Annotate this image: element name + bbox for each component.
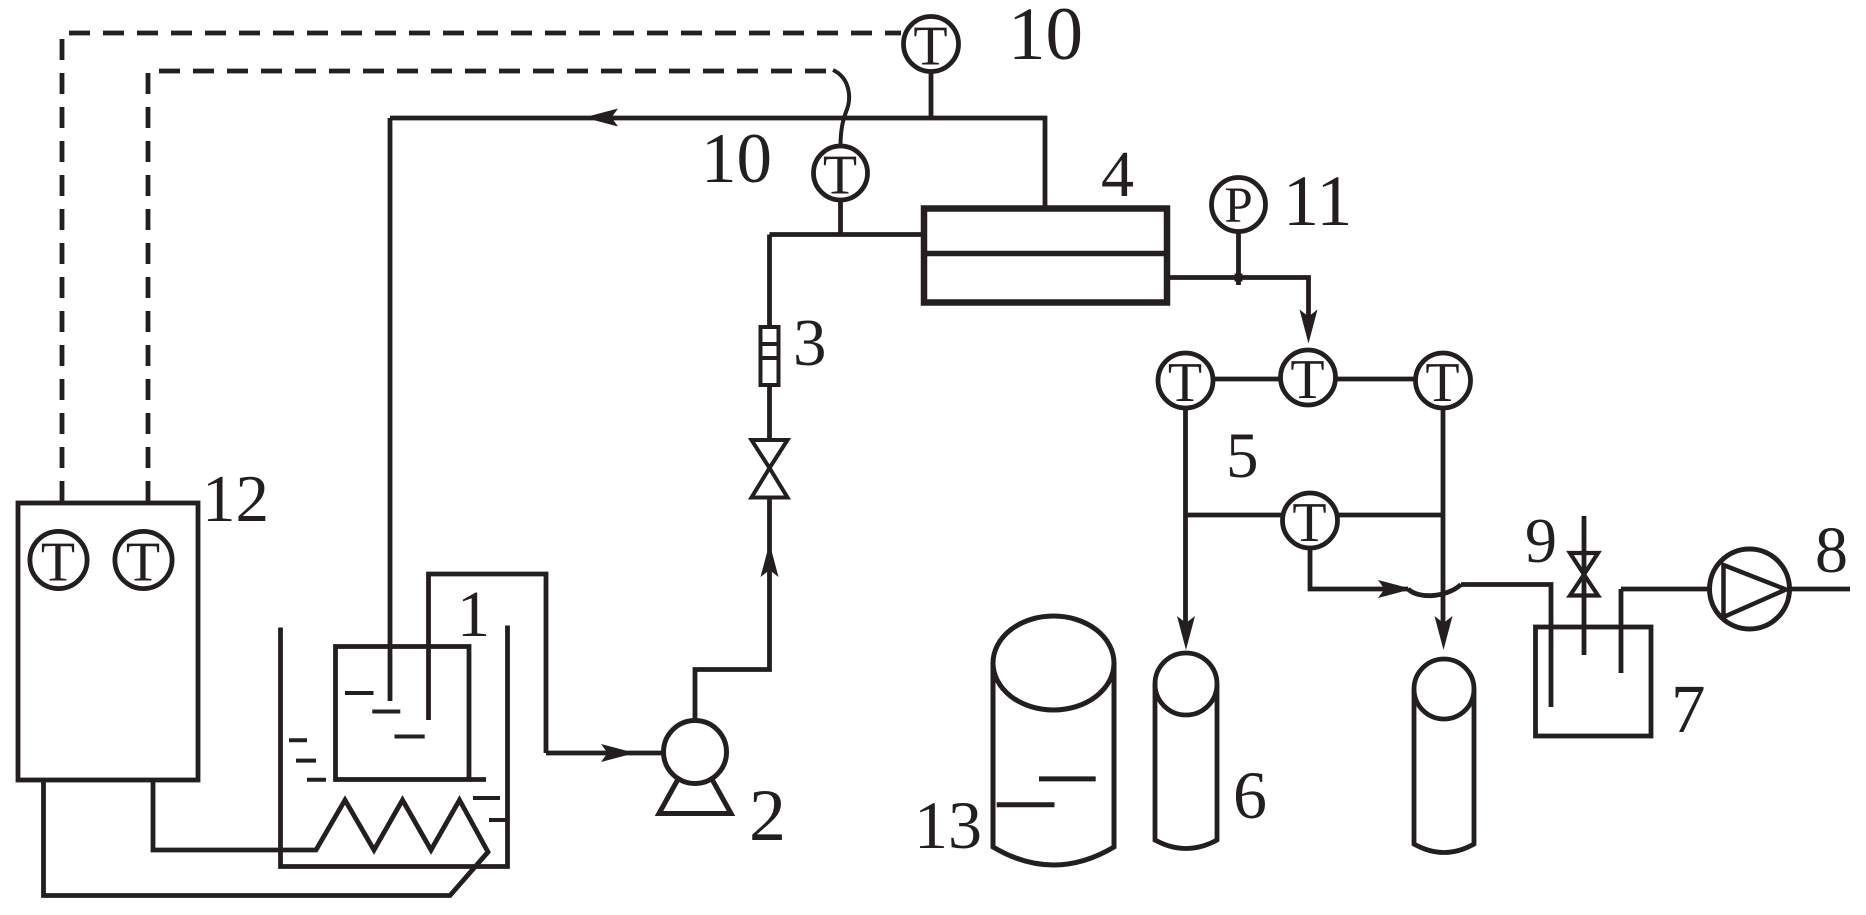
svg-text:5: 5 — [1226, 420, 1259, 492]
svg-text:13: 13 — [914, 787, 982, 863]
svg-text:11: 11 — [1283, 161, 1352, 241]
svg-text:T: T — [1425, 352, 1459, 414]
svg-text:12: 12 — [202, 462, 269, 536]
svg-text:T: T — [823, 145, 857, 207]
svg-text:1: 1 — [457, 578, 490, 651]
svg-text:2: 2 — [749, 775, 786, 857]
svg-text:T: T — [1290, 349, 1324, 411]
svg-text:4: 4 — [1101, 138, 1134, 211]
svg-text:P: P — [1224, 178, 1252, 234]
svg-text:6: 6 — [1233, 757, 1267, 833]
svg-text:T: T — [1168, 352, 1202, 414]
svg-text:T: T — [126, 532, 160, 594]
svg-text:10: 10 — [1008, 0, 1083, 76]
svg-text:T: T — [1292, 492, 1326, 554]
svg-text:7: 7 — [1671, 671, 1706, 747]
svg-text:9: 9 — [1525, 505, 1557, 576]
svg-text:8: 8 — [1815, 514, 1848, 587]
svg-text:T: T — [913, 16, 947, 78]
svg-text:10: 10 — [701, 120, 772, 198]
svg-text:3: 3 — [793, 306, 827, 380]
svg-text:T: T — [41, 532, 75, 594]
